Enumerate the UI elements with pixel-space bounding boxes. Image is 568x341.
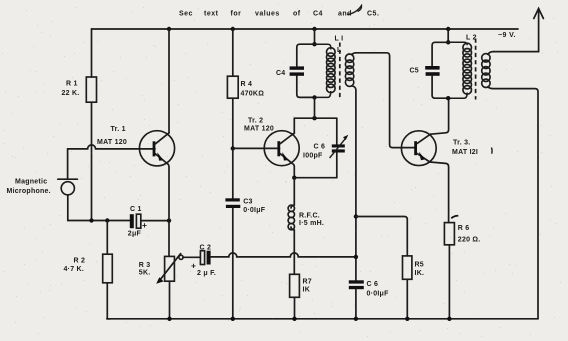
svg-text:R 1: R 1 bbox=[66, 81, 78, 88]
capacitor C1 (2uF electrolytic) bbox=[130, 214, 141, 228]
wire: audio line C2 to mixing node with hops over C3 wire and RFC wire bbox=[211, 253, 356, 257]
wire: Tr1 base line with hop over R1 wire bbox=[68, 145, 155, 149]
wire: rail down to Tr1 collector bbox=[168, 29, 170, 133]
inductor L2 secondary winding bbox=[482, 54, 490, 88]
title text: See text for values of C4 and C5 bbox=[179, 11, 379, 18]
resistor R6 bbox=[444, 223, 454, 245]
wire: R4 to Tr2 base node bbox=[232, 98, 234, 148]
wire: node down to R2 bbox=[106, 221, 108, 255]
transistor Tr2 MAT 120 bbox=[264, 131, 299, 166]
wire: mic bottom lead down to node bbox=[67, 195, 69, 221]
junction dot tank top node bbox=[312, 42, 316, 46]
junction dot C3/ground rail bbox=[231, 317, 235, 321]
resistor R4 bbox=[227, 76, 238, 98]
wire: tank bottom node down to C6 loop bbox=[314, 97, 316, 118]
wire: C1 right plate to Tr1 emitter line bbox=[141, 220, 169, 222]
svg-text:0·0IμF: 0·0IμF bbox=[243, 207, 266, 214]
junction dot rail/R4 bbox=[231, 27, 235, 31]
L1 core (dashed) bbox=[339, 43, 341, 101]
junction dot rail/L1 stem bbox=[312, 27, 316, 31]
capacitor C5 bbox=[425, 66, 439, 76]
wire: rail down to R4 bbox=[232, 29, 234, 76]
svg-text:Tr. 1: Tr. 1 bbox=[111, 126, 126, 133]
wire: R1 bottom down to input node bbox=[91, 102, 93, 220]
svg-text:−9 V.: −9 V. bbox=[498, 32, 516, 39]
svg-text:+: + bbox=[142, 220, 147, 230]
svg-text:C 6: C 6 bbox=[367, 281, 379, 288]
svg-text:Magnetic: Magnetic bbox=[15, 179, 47, 186]
svg-text:R 2: R 2 bbox=[74, 258, 86, 265]
wire: Tr3 emitter to R6 bbox=[430, 162, 449, 223]
junction dot C6b/ground rail bbox=[354, 317, 358, 321]
svg-text:C 6: C 6 bbox=[314, 144, 326, 151]
wire: emitter node down to RFC bbox=[293, 178, 295, 205]
svg-text:MAT 120: MAT 120 bbox=[244, 126, 274, 133]
svg-text:text: text bbox=[204, 11, 219, 18]
resistor R5 bbox=[403, 256, 412, 279]
svg-text:IK: IK bbox=[303, 287, 311, 294]
junction dot rail/L2 stem bbox=[446, 27, 450, 31]
svg-text:MAT 120: MAT 120 bbox=[97, 139, 127, 146]
wire: L2 secondary bottom to ground rail (right side) bbox=[488, 87, 538, 319]
svg-text:4·7 K.: 4·7 K. bbox=[64, 266, 85, 273]
variable capacitor C6 100pF plates bbox=[330, 135, 349, 158]
svg-text:C4: C4 bbox=[313, 11, 323, 18]
svg-text:Sec: Sec bbox=[179, 11, 193, 18]
junction dot tank2 bottom node bbox=[446, 96, 450, 100]
wire: branch to R5 bbox=[356, 217, 407, 256]
svg-text:C 1: C 1 bbox=[130, 206, 142, 213]
wire: C6b bottom to ground rail bbox=[355, 289, 357, 319]
svg-text:2 μ F.: 2 μ F. bbox=[197, 270, 216, 277]
junction dot R3/ground rail bbox=[167, 317, 171, 321]
wire: R3 wiper to C2 bbox=[183, 256, 200, 258]
transistor Tr1 MAT 120 bbox=[139, 131, 174, 166]
junction dot rail/Tr1 collector bbox=[167, 27, 171, 31]
wire: L2 secondary top to antenna bbox=[488, 52, 539, 55]
svg-text:L: L bbox=[337, 47, 342, 54]
capacitor C4 bbox=[290, 66, 304, 75]
stray tick mark near R6 bbox=[451, 216, 458, 219]
wire: base node to Tr2 base bbox=[233, 147, 280, 149]
L2 core (dashed) bbox=[475, 39, 477, 100]
wire: tank loop left branch through C4 bbox=[297, 44, 315, 66]
capacitor C2 (2uF electrolytic) bbox=[200, 251, 210, 265]
wire: mic top lead up to base line bbox=[67, 149, 69, 179]
svg-text:C4: C4 bbox=[276, 70, 285, 77]
svg-text:MAT I2I: MAT I2I bbox=[452, 149, 478, 156]
resistor R1 bbox=[86, 77, 96, 102]
svg-text:+: + bbox=[191, 261, 196, 271]
wire: rail corner down to R1 bbox=[91, 29, 93, 77]
svg-text:I·5 mH.: I·5 mH. bbox=[299, 220, 324, 227]
wire: tank2 loop left branch through C5 bbox=[432, 42, 448, 66]
svg-text:R5: R5 bbox=[415, 261, 424, 268]
inductor L2 primary winding bbox=[448, 42, 471, 98]
svg-text:R7: R7 bbox=[303, 278, 312, 285]
junction dot R5 branch node bbox=[354, 214, 358, 218]
wire: Tr2 emitter down to loop bottom bbox=[292, 163, 294, 178]
capacitor C3 (0.01uF) bbox=[225, 198, 240, 208]
svg-text:L 2: L 2 bbox=[466, 35, 477, 42]
svg-text:Tr. 3.: Tr. 3. bbox=[453, 139, 470, 146]
svg-text:L I: L I bbox=[335, 36, 344, 43]
junction dot audio join node bbox=[354, 255, 358, 259]
svg-text:Microphone.: Microphone. bbox=[7, 188, 51, 195]
junction dot C1/emitter line bbox=[167, 218, 171, 222]
wire: RFC down to R7 (audio line hops over) bbox=[293, 230, 295, 274]
wire: L1 secondary bottom down to C6b bbox=[352, 86, 356, 280]
junction dot tank bottom node bbox=[312, 95, 316, 99]
svg-text:C 2: C 2 bbox=[200, 244, 212, 251]
junction dot R6/ground rail bbox=[447, 317, 451, 321]
svg-text:R.F.C.: R.F.C. bbox=[299, 212, 320, 219]
wire: R2 bottom to ground rail corner bbox=[107, 283, 110, 319]
svg-text:of: of bbox=[293, 11, 301, 18]
junction dot base node bbox=[231, 146, 235, 150]
svg-text:C5.: C5. bbox=[367, 11, 379, 18]
junction dot R2/node bbox=[105, 218, 109, 222]
inductor L1 primary winding bbox=[315, 44, 336, 97]
svg-text:220 Ω.: 220 Ω. bbox=[458, 237, 481, 244]
svg-text:C3: C3 bbox=[243, 198, 252, 205]
junction dot R1/node bbox=[89, 218, 93, 222]
antenna bbox=[534, 9, 544, 52]
wire: C6 loop right side bbox=[336, 118, 338, 178]
wire: L1 secondary top to Tr3 base bbox=[352, 53, 416, 148]
svg-text:I00pF: I00pF bbox=[303, 153, 323, 160]
svg-text:R 3: R 3 bbox=[139, 262, 151, 269]
variable resistor R3 (5K) bbox=[156, 254, 183, 284]
wire: base node down to C3 bbox=[232, 148, 234, 198]
magnetic microphone symbol bbox=[58, 179, 78, 195]
junction dot emitter node bbox=[292, 176, 296, 180]
transistor Tr3 MAT 121 bbox=[401, 131, 436, 166]
svg-text:22 K.: 22 K. bbox=[62, 90, 80, 97]
junction dot tank stem on loop top bbox=[312, 116, 316, 120]
svg-text:R 6: R 6 bbox=[458, 225, 470, 232]
svg-text:IK.: IK. bbox=[415, 270, 425, 277]
svg-text:Tr. 2: Tr. 2 bbox=[248, 118, 263, 125]
wire: Tr2 collector up to tank loop top bbox=[293, 118, 295, 133]
wire: Tr3 collector to tank 2 bbox=[430, 98, 448, 134]
capacitor C6b (0.01uF) bbox=[349, 280, 364, 289]
wire: Tr1 emitter down through C1 node to R3 bbox=[167, 163, 169, 256]
negative supply rail -9V (top) bbox=[92, 28, 519, 30]
junction dot R5/ground rail bbox=[405, 317, 409, 321]
wire: C3 bottom to ground rail bbox=[232, 208, 234, 319]
resistor R7 bbox=[290, 274, 300, 297]
inductor L1 secondary winding bbox=[345, 54, 353, 86]
ground return rail (bottom) bbox=[107, 318, 538, 320]
wire: rail down to tank L1/C4 top node bbox=[314, 29, 316, 44]
svg-text:R 4: R 4 bbox=[241, 81, 253, 88]
svg-text:C5: C5 bbox=[410, 68, 419, 75]
svg-text:470KΩ: 470KΩ bbox=[241, 90, 265, 97]
wire: input node line to C1 bbox=[68, 220, 131, 222]
svg-text:5K.: 5K. bbox=[139, 270, 151, 277]
junction dot tank2 top node bbox=[446, 40, 450, 44]
RF choke RFC 1.5mH bbox=[288, 205, 294, 230]
wire: R7 bottom to ground rail bbox=[294, 297, 296, 319]
resistor R2 bbox=[103, 254, 113, 283]
wire: rail down to tank L2/C5 top node bbox=[447, 29, 449, 42]
wire: C6 loop bottom line bbox=[294, 177, 337, 179]
svg-text:0·0IμF: 0·0IμF bbox=[367, 290, 390, 297]
pen swoosh over 'and C5' bbox=[347, 6, 362, 15]
junction dot R7/ground rail bbox=[292, 317, 296, 321]
svg-text:values: values bbox=[255, 11, 280, 18]
wire: R5 bottom to ground rail bbox=[406, 279, 408, 319]
wire: C6 loop top line bbox=[294, 117, 337, 119]
svg-text:for: for bbox=[231, 11, 242, 18]
wire: R6 bottom to ground rail bbox=[448, 245, 450, 319]
wire: R3 bottom to ground rail bbox=[169, 281, 171, 319]
svg-text:2μF: 2μF bbox=[128, 231, 142, 238]
